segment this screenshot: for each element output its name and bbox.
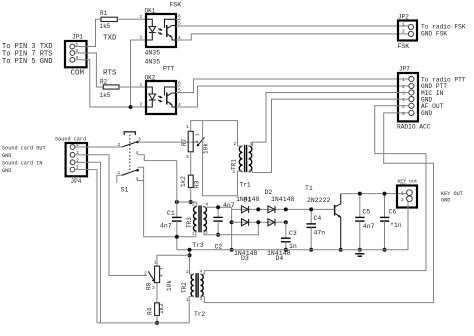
LED inside OK2 [146, 87, 152, 94]
svg-text:1N4148: 1N4148 [271, 196, 295, 203]
svg-text:1: 1 [76, 165, 79, 171]
wire OK1 pin2 down to junction [131, 40, 147, 107]
svg-text:AF OUT: AF OUT [421, 103, 444, 110]
node bridge junction dots [256, 207, 260, 211]
svg-text:C6: C6 [389, 208, 397, 215]
svg-text:1: 1 [76, 42, 79, 48]
svg-text:2: 2 [118, 142, 121, 148]
wire JP7 pin3 MIC IN to Tr1 pin4 [253, 93, 409, 147]
svg-text:Sound card: Sound card [55, 137, 86, 143]
svg-text:1k2: 1k2 [158, 303, 165, 314]
svg-text:COM: COM [71, 70, 85, 78]
svg-text:Sound card OUT: Sound card OUT [2, 145, 46, 151]
svg-text:Tr1: Tr1 [240, 182, 251, 189]
wire JP5 pin2 to ground rail [407, 202, 409, 250]
wire Tr3 pin3 to bridge row2 [204, 222, 258, 234]
resistor R1 1k5 [100, 10, 118, 30]
capacitor C6 *1n [380, 192, 402, 252]
ground [355, 250, 364, 257]
svg-text:1: 1 [158, 267, 164, 270]
wire rail drop to R8 top [189, 250, 191, 275]
transistor inside OK1 [166, 25, 168, 37]
connector JP2 [398, 14, 466, 51]
svg-text:JP1: JP1 [72, 34, 83, 41]
svg-text:TR3: TR3 [186, 217, 193, 228]
capacitor C1 4n7 [160, 161, 182, 250]
svg-text:To radio FSK: To radio FSK [421, 23, 466, 30]
connector JP1 [65, 34, 87, 78]
wire bottom DC rail [177, 249, 408, 251]
svg-text:1k5: 1k5 [100, 92, 111, 99]
svg-text:*1n: *1n [390, 222, 402, 229]
svg-text:RTS: RTS [103, 70, 117, 78]
switch S1 (DPDT) [117, 132, 198, 237]
svg-text:Tr2: Tr2 [194, 311, 205, 318]
svg-text:3: 3 [76, 55, 79, 61]
svg-text:47n: 47n [314, 230, 326, 237]
diode D1 1N4148 [236, 196, 260, 213]
connector JP5 KEY out [397, 179, 463, 208]
potentiometer R8 10k [144, 260, 173, 292]
wire OK1 pin6 stub [176, 18, 181, 20]
svg-text:1: 1 [186, 124, 189, 130]
wire JP4 pin4 to S1 throw [87, 146, 122, 148]
wire R8 bottom to R4 [156, 283, 158, 303]
svg-text:3: 3 [186, 154, 189, 160]
svg-text:FSK: FSK [170, 2, 182, 9]
svg-text:GND: GND [2, 168, 11, 174]
wire R8 top link [157, 255, 190, 266]
svg-text:6: 6 [402, 111, 405, 117]
wire JP4 pin3 down to R8 wiper [87, 155, 147, 276]
transistor inside OK2 [166, 93, 168, 105]
svg-text:JP7: JP7 [399, 66, 410, 73]
svg-text:C1: C1 [167, 210, 175, 217]
svg-text:2: 2 [76, 48, 79, 54]
wire OK1 pin4 to JP2 pin2 [176, 34, 408, 40]
connector JP4 Sound card [2, 137, 87, 186]
svg-text:5: 5 [402, 104, 405, 110]
svg-text:1: 1 [401, 191, 404, 197]
wire Tr2 pin1 [188, 297, 190, 323]
diode D3 1N4148 [234, 219, 258, 262]
transistor T1 2N2222 [305, 185, 343, 252]
node junction cathode common [129, 105, 133, 109]
diode D4 1N4148 [267, 219, 291, 262]
svg-text:1: 1 [140, 14, 143, 20]
wire OK1 pin5 to JP2 pin1 [176, 25, 408, 27]
LED inside OK1 [146, 19, 152, 26]
photon arrows [158, 29, 162, 31]
node TXD/RTS/GND external labels [2, 43, 52, 66]
wire primary-cold rail to Tr3 pin1 [144, 236, 196, 238]
svg-text:GND: GND [441, 197, 450, 203]
svg-text:D2: D2 [265, 189, 273, 196]
wire OK2 pin6 stub [176, 85, 181, 87]
resistor R2 1k5 [100, 78, 120, 99]
svg-text:R4: R4 [147, 307, 154, 315]
svg-text:10k: 10k [203, 143, 210, 154]
svg-text:3: 3 [152, 285, 155, 291]
svg-text:2: 2 [402, 29, 405, 35]
svg-text:C5: C5 [363, 208, 371, 215]
svg-text:D1: D1 [244, 196, 252, 203]
svg-text:6: 6 [178, 14, 181, 20]
svg-text:2: 2 [186, 269, 189, 275]
svg-text:KEY OUT: KEY OUT [441, 191, 463, 197]
wire T1 collector to JP5 pin1 [341, 193, 409, 195]
wire JP4 pin2 down to bottom rail [87, 162, 101, 323]
potentiometer R7 10k [181, 124, 210, 160]
svg-text:Tr3: Tr3 [193, 242, 204, 249]
svg-text:10k: 10k [166, 280, 173, 291]
svg-text:R7: R7 [181, 138, 188, 146]
svg-text:4n7: 4n7 [223, 202, 235, 209]
svg-text:Sound card IN: Sound card IN [2, 160, 42, 166]
svg-text:D4: D4 [276, 255, 284, 262]
svg-text:2N2222: 2N2222 [307, 197, 331, 204]
op-amp OK2 optocoupler 4N35 [140, 59, 182, 115]
transformer Tr3 [186, 202, 208, 250]
svg-text:1k2: 1k2 [180, 176, 187, 187]
svg-text:PTT: PTT [163, 66, 175, 73]
svg-text:GND: GND [421, 110, 432, 117]
capacitor C5 4n7 [355, 192, 374, 252]
wire JP1 pin1 to R1 [87, 19, 102, 46]
op-amp OK1 optocoupler 4N35 [140, 2, 182, 57]
svg-text:1n: 1n [289, 243, 297, 250]
svg-text:1: 1 [154, 260, 157, 266]
wire R4 bottom to rail [156, 316, 158, 323]
svg-text:2: 2 [140, 35, 143, 41]
svg-text:3: 3 [76, 150, 79, 156]
svg-text:D3: D3 [241, 255, 249, 262]
svg-text:R2: R2 [100, 78, 108, 85]
capacitor C2 4n7 [213, 202, 234, 250]
svg-text:4N35: 4N35 [145, 59, 161, 66]
svg-text:S1: S1 [121, 187, 129, 194]
svg-text:C4: C4 [314, 215, 322, 222]
capacitor C3 1n [281, 222, 297, 251]
svg-text:1: 1 [186, 297, 189, 303]
svg-text:1: 1 [402, 22, 405, 28]
wire JP7 pin4 GND to Tr1 pin3 [253, 99, 409, 172]
svg-text:R3: R3 [193, 180, 200, 188]
svg-text:GND: GND [2, 153, 11, 159]
svg-text:2: 2 [144, 271, 147, 277]
svg-text:R1: R1 [100, 10, 108, 17]
svg-text:T1: T1 [305, 185, 313, 192]
svg-text:1: 1 [195, 133, 201, 136]
svg-text:1: 1 [402, 77, 405, 83]
svg-text:4N35: 4N35 [145, 50, 161, 57]
wire bottom-left rail [97, 322, 189, 324]
svg-text:GND FSK: GND FSK [421, 30, 447, 37]
svg-text:JP4: JP4 [71, 178, 82, 185]
wire bridge row1 [232, 208, 334, 210]
wire JP1 pin3 to OK LED cathodes [87, 60, 147, 107]
wire keyer net horizontal (C1 top / Tr3 pin2) [177, 201, 197, 203]
svg-text:2: 2 [140, 102, 143, 108]
wire R1 to OK1 pin1 [117, 18, 146, 20]
diode D2 1N4148 [265, 189, 295, 213]
wire JP7 pin6 GND down right side to Tr2 pin3 [204, 113, 433, 303]
svg-text:1k5: 1k5 [100, 23, 111, 30]
svg-text:4: 4 [402, 97, 405, 103]
connector JP7 RADIO ACC [397, 66, 466, 131]
wire JP4 pin1 down to bottom rail [87, 170, 97, 323]
wire keyer tap down to Tr1 pin1 [203, 121, 238, 196]
svg-text:2: 2 [234, 141, 237, 147]
svg-text:TXD: TXD [103, 34, 117, 42]
svg-text:1: 1 [140, 82, 143, 88]
wire Tr3 pin4 to bridge [205, 206, 232, 208]
svg-text:RADIO ACC: RADIO ACC [397, 124, 431, 131]
svg-text:2: 2 [401, 197, 404, 203]
wire R7 top to Tr1 pin2 [191, 121, 238, 146]
svg-text:3: 3 [402, 91, 405, 97]
resistor R3 1k2 [180, 175, 200, 188]
svg-text:2: 2 [76, 157, 79, 163]
wire bridge AC vertical [231, 207, 233, 250]
svg-text:2: 2 [402, 84, 405, 90]
wire JP7 pin5 AF OUT down right side to Tr2 pin4 [204, 106, 426, 274]
wire OK2 pin4 to JP7 pin2 [176, 86, 409, 107]
resistor R4 1k2 [147, 303, 165, 316]
svg-text:4n7: 4n7 [363, 223, 375, 230]
svg-text:4n7: 4n7 [160, 223, 172, 230]
wire R3 bottom to keyer input net [190, 188, 192, 203]
wire JP1 pin2 to R2 [87, 53, 104, 87]
svg-text:4: 4 [158, 274, 164, 277]
svg-text:To PIN 5 GND: To PIN 5 GND [2, 58, 52, 66]
svg-text:FSK: FSK [398, 43, 410, 50]
capacitor C4 47n [307, 207, 326, 251]
wire bridge row2 [232, 221, 286, 223]
wire R7 bottom to R3 [190, 152, 192, 175]
svg-text:4: 4 [76, 142, 79, 148]
wire OK2 pin5 to JP7 pin1 [176, 79, 409, 93]
photon arrows [158, 96, 162, 98]
svg-text:C3: C3 [289, 230, 297, 237]
svg-text:TR1: TR1 [231, 159, 238, 170]
wire R2 to OK2 pin1 [119, 86, 146, 88]
transformer Tr2 [181, 269, 205, 319]
svg-text:TR2: TR2 [181, 282, 188, 293]
transformer Tr1 [231, 141, 253, 189]
